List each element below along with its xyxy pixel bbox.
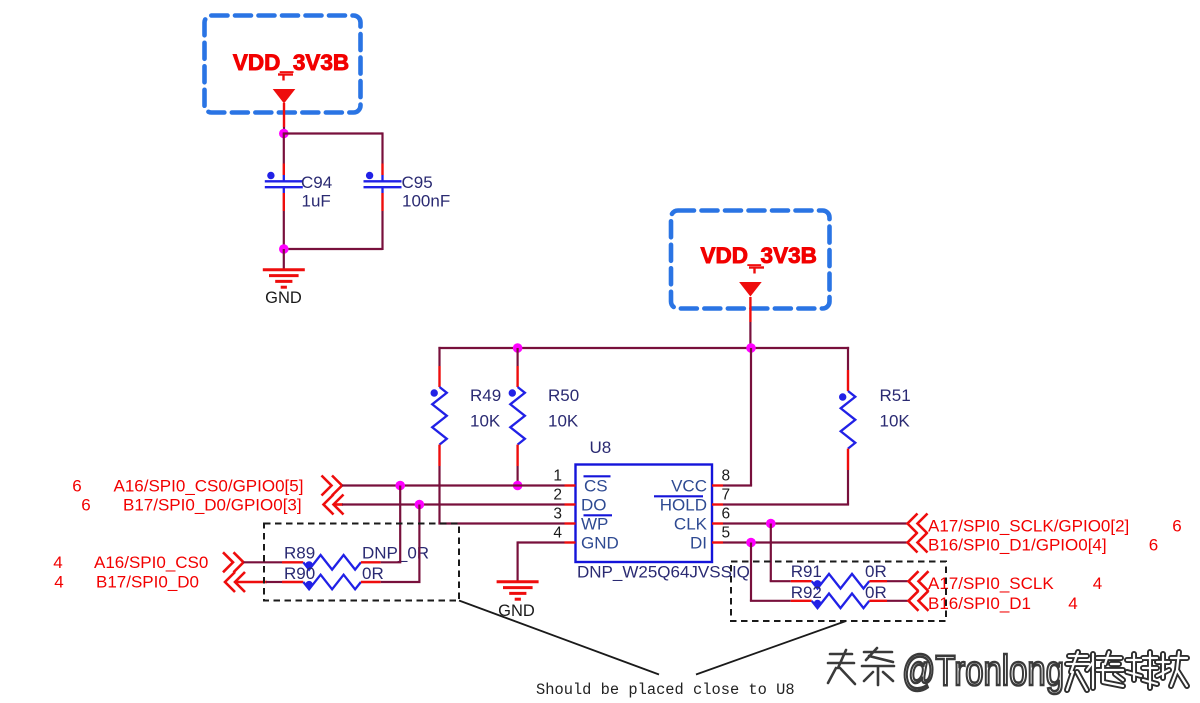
svg-text:R51: R51 [880,386,911,405]
resistor R50 10K [516,348,518,366]
svg-text:100nF: 100nF [402,192,450,211]
wire VDD bus to VCC pin8 [750,348,752,486]
wire R50 to CS row [516,466,518,486]
svg-text:B17/SPI0_D0/GPIO0[3]: B17/SPI0_D0/GPIO0[3] [123,496,302,515]
junction node bottom of cap loop [279,244,289,254]
resistor R51 10K [847,347,849,370]
wire bottom of cap loop [284,248,383,250]
svg-text:B17/SPI0_D0: B17/SPI0_D0 [96,573,199,592]
junction node top of cap loop [279,129,289,139]
junction node bus/VDD [746,343,756,353]
op-amp/IC U8 W25Q64 flash chip body [576,465,713,563]
DNP dashed box (left) [264,524,459,601]
watermark 条 glyph 2 [862,648,894,685]
svg-text:4: 4 [1068,594,1077,613]
wire to R90 [266,581,282,583]
svg-text:10K: 10K [470,412,501,431]
svg-text:3: 3 [553,506,562,523]
watermark outlined glyph 3 [1127,652,1157,688]
pointer line from right box [696,621,846,675]
wire power pin down (red) [283,103,285,127]
svg-text:CLK: CLK [674,515,708,534]
wire R51 to HOLD pin7 [847,470,849,505]
svg-text:R91: R91 [791,562,822,581]
off-page connector input [908,514,928,534]
ground GND (left) [263,268,305,271]
resistor R89 DNP_0R [282,561,303,563]
svg-text:CS: CS [584,477,608,496]
svg-text:C94: C94 [301,173,332,192]
svg-text:DNP_W25Q64JVSSIQ: DNP_W25Q64JVSSIQ [577,563,750,582]
svg-text:6: 6 [72,477,81,496]
pin 6 stub [712,522,723,524]
svg-text:WP: WP [581,515,608,534]
svg-text:Should be placed close to U8: Should be placed close to U8 [536,681,795,699]
pin 7 stub [712,503,723,505]
off-page connector input [909,591,929,611]
wire GND pin4 to ground [518,541,565,543]
wire CLK pin6 to connector [723,522,908,524]
svg-text:GND: GND [581,534,619,553]
svg-text:10K: 10K [548,412,579,431]
watermark outlined glyph 1 [1067,652,1093,690]
svg-text:R92: R92 [791,583,822,602]
svg-text:DI: DI [690,534,707,553]
wire to DO pin2 [342,503,565,505]
wire DI branch down to R92 [750,543,752,601]
svg-text:1: 1 [553,468,562,485]
pin 3 stub [565,522,576,524]
off-page connector input [908,533,928,553]
wire C94 bottom lead [283,211,285,249]
svg-text:1uF: 1uF [302,192,331,211]
svg-text:A16/SPI0_CS0/GPIO0[5]: A16/SPI0_CS0/GPIO0[5] [114,477,304,496]
junction node DI/R92 branch [746,538,756,548]
junction node row2/R90 branch [415,500,425,510]
capacitor C94 [283,164,285,176]
ground GND (center) [497,580,539,583]
svg-text:6: 6 [1149,536,1158,555]
svg-text:R49: R49 [470,386,501,405]
power bar and triangle [278,73,293,75]
resistor R91 0R [791,580,812,582]
svg-text:GND: GND [265,289,302,307]
off-page connector input [324,495,344,515]
svg-text:R89: R89 [284,543,315,562]
svg-text:0R: 0R [865,583,887,602]
svg-text:0R: 0R [865,562,887,581]
off-page connector output [322,476,343,496]
off-page connector output [223,552,244,572]
wire DI pin5 to connector [723,541,908,543]
junction node R50/CS row [513,481,523,491]
resistor R49 10K [438,347,440,366]
pin 5 stub [712,541,723,543]
svg-text:VCC: VCC [671,477,707,496]
svg-text:U8: U8 [590,438,612,457]
svg-text:@Tronlong: @Tronlong [902,647,1064,695]
svg-text:7: 7 [722,487,731,504]
wire top of cap loop [283,132,383,134]
svg-text:R90: R90 [284,564,315,583]
svg-text:5: 5 [722,525,731,542]
wire R49 to WP pin3 [438,466,440,524]
svg-text:VDD_3V3B: VDD_3V3B [233,50,349,75]
DNP dashed box (right) [731,562,946,622]
wire R89 to row1 [381,561,402,563]
off-page connector input [909,571,929,591]
wire down to cap loop [283,127,285,134]
svg-text:A17/SPI0_SCLK/GPIO0[2]: A17/SPI0_SCLK/GPIO0[2] [928,517,1129,536]
pointer line from left box [459,601,659,675]
wire to ground [283,249,285,269]
wire R92 to connector [887,600,909,602]
svg-text:0R: 0R [362,564,384,583]
svg-text:4: 4 [53,553,62,572]
svg-text:6: 6 [1172,517,1181,536]
wire C95 branch top [381,132,383,163]
svg-text:DO: DO [581,496,607,515]
pin 1 stub [565,484,576,486]
svg-text:VDD_3V3B: VDD_3V3B [701,243,817,268]
wire C95 bottom lead [381,211,383,250]
resistor R92 0R [791,600,812,602]
svg-text:4: 4 [1093,574,1102,593]
junction node bus/R50 [513,343,523,353]
pin 2 stub [565,503,576,505]
svg-text:B16/SPI0_D1: B16/SPI0_D1 [928,594,1031,613]
pin 8 stub [712,484,723,486]
svg-text:4: 4 [553,525,562,542]
svg-text:6: 6 [722,506,731,523]
watermark 头条 glyph 1 [828,650,855,684]
pin 4 stub [565,541,576,543]
svg-text:C95: C95 [402,173,433,192]
off-page connector input [225,572,245,592]
wire C94 top lead [283,134,285,164]
resistor R90 0R [282,581,303,583]
svg-text:HOLD: HOLD [660,496,707,515]
svg-text:R50: R50 [548,386,579,405]
wire pull-up bus [438,347,849,349]
svg-text:8: 8 [722,468,731,485]
svg-text:6: 6 [81,496,90,515]
wire VDD to bus [749,322,751,348]
junction node CLK/R91 branch [766,519,776,529]
capacitor C95 [381,164,383,176]
watermark outlined glyph 2 [1097,652,1123,686]
watermark outlined glyph 4 [1157,652,1187,686]
wire to CS pin1 [342,484,565,486]
junction node row1/R89 branch [395,481,405,491]
wire R91 to connector [887,580,909,582]
wire power pin down (red) [749,297,751,322]
power bar and triangle [749,266,764,268]
svg-text:2: 2 [553,487,562,504]
wire R90 to row2 [381,581,421,583]
power symbol VDD_3V3B (blue dashed box) [671,211,830,309]
svg-text:4: 4 [54,573,63,592]
wire to R89 [244,561,283,563]
svg-text:10K: 10K [880,412,911,431]
wire CLK branch down to R91 [770,524,772,582]
power symbol VDD_3V3B (blue dashed box) [205,16,361,113]
svg-text:A16/SPI0_CS0: A16/SPI0_CS0 [94,553,208,572]
svg-text:B16/SPI0_D1/GPIO0[4]: B16/SPI0_D1/GPIO0[4] [928,536,1107,555]
